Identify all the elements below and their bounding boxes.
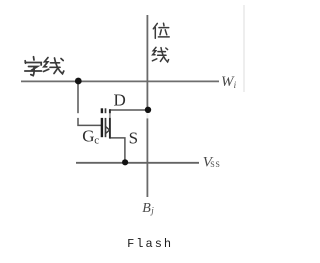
svg-text:j: j (150, 206, 154, 216)
svg-text:SS: SS (210, 160, 220, 169)
svg-text:D: D (114, 90, 126, 109)
svg-text:Flash: Flash (127, 237, 173, 251)
svg-text:B: B (142, 201, 151, 216)
svg-text:c: c (94, 135, 99, 147)
svg-text:S: S (129, 129, 138, 148)
svg-text:G: G (82, 126, 94, 145)
